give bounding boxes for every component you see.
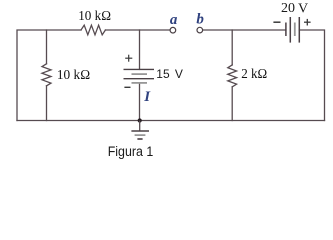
resistor R1 10k horizontal zigzag bbox=[81, 25, 105, 35]
svg-text:10 kΩ: 10 kΩ bbox=[78, 9, 111, 24]
resistor R2 10k vertical zigzag bbox=[42, 64, 51, 86]
terminal a circle bbox=[170, 27, 176, 33]
battery V1 plus sign bbox=[125, 55, 132, 62]
resistor R3 2k vertical zigzag bbox=[228, 65, 237, 87]
wire left inner branch lower lead bbox=[46, 86, 48, 121]
svg-text:20: 20 bbox=[281, 1, 295, 16]
wire from R1 to terminal a bbox=[105, 29, 170, 31]
svg-text:b: b bbox=[196, 12, 204, 28]
wire middle branch lower lead bbox=[139, 83, 141, 121]
svg-text:Figura 1: Figura 1 bbox=[108, 144, 154, 159]
svg-text:I: I bbox=[143, 89, 151, 105]
svg-text:15: 15 bbox=[156, 67, 170, 81]
svg-text:V: V bbox=[175, 67, 183, 81]
battery V1 minus sign bbox=[124, 86, 130, 88]
ground symbol bbox=[131, 121, 149, 140]
svg-text:a: a bbox=[170, 12, 178, 28]
wire from battery V2 to top-right corner and down right edge bbox=[299, 30, 324, 121]
terminal b circle bbox=[197, 27, 203, 33]
wire from terminal b to battery V2 bbox=[203, 29, 286, 31]
svg-text:V: V bbox=[298, 1, 308, 16]
ground junction node dot bbox=[138, 118, 142, 122]
battery V2 plus sign bbox=[304, 19, 311, 26]
wire left inner branch upper lead bbox=[46, 30, 48, 64]
battery V1 15V plates bbox=[124, 69, 155, 83]
wire middle branch upper lead bbox=[139, 30, 141, 69]
battery V2 minus sign bbox=[273, 21, 280, 23]
svg-text:2 kΩ: 2 kΩ bbox=[241, 67, 267, 82]
wire right branch upper lead bbox=[231, 30, 233, 65]
wire right branch lower lead bbox=[231, 87, 233, 121]
svg-text:10 kΩ: 10 kΩ bbox=[57, 68, 90, 83]
wire top-left segment bbox=[17, 30, 81, 121]
wire bottom rail bbox=[17, 120, 325, 122]
battery V2 20V plates bbox=[286, 17, 299, 43]
